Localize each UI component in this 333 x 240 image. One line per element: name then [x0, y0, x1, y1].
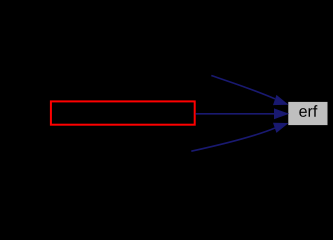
svg-text:erf: erf — [299, 104, 318, 121]
